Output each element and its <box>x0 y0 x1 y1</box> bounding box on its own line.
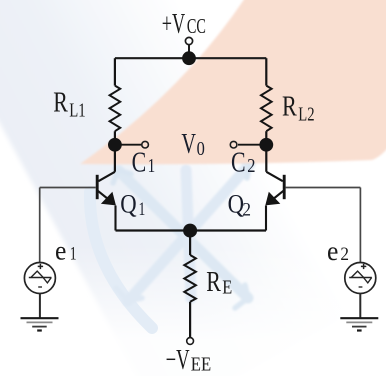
wire RE upper <box>189 231 191 255</box>
wire e1 to ground <box>39 294 41 319</box>
transistor Q1 <box>97 172 115 199</box>
svg-text:R: R <box>282 91 297 122</box>
svg-text:2: 2 <box>247 155 255 177</box>
resistor RL2 <box>261 86 272 132</box>
label e2 <box>327 236 349 266</box>
wire Q1 emitter drop <box>114 206 116 231</box>
label Q2 <box>228 190 251 221</box>
wire Q1 base lead <box>40 187 96 189</box>
node C1 terminal <box>142 141 149 148</box>
svg-text:C: C <box>231 148 246 179</box>
wire C1 stub <box>115 144 142 146</box>
svg-text:−V: −V <box>166 344 190 376</box>
svg-text:CC: CC <box>187 14 206 38</box>
svg-text:R: R <box>53 87 68 118</box>
svg-text:C: C <box>132 148 147 179</box>
svg-text:V: V <box>181 129 196 160</box>
junction VCC dot <box>182 51 196 65</box>
label Q1 <box>120 190 145 221</box>
label -VEE <box>166 344 212 376</box>
svg-text:Q: Q <box>120 190 137 219</box>
wire left branch mid <box>114 131 116 172</box>
junction C2 dot <box>259 138 273 152</box>
junction emitter dot <box>183 224 197 238</box>
svg-text:e: e <box>55 236 66 266</box>
wire e2 to ground <box>359 294 361 319</box>
node +VCC terminal <box>185 37 192 44</box>
label RL2 <box>282 91 315 125</box>
label V0 <box>181 129 204 160</box>
peach watermark polygon <box>80 0 386 164</box>
wire e1 riser <box>39 188 41 263</box>
wire Q2 base lead <box>286 187 361 189</box>
wire RE lower <box>189 302 191 338</box>
wire right branch upper <box>265 58 267 85</box>
label RE <box>206 267 232 299</box>
svg-text:E: E <box>222 277 232 299</box>
watermark blue arc <box>90 192 152 328</box>
wire bottom emitter bus <box>116 229 267 231</box>
node -VEE terminal <box>187 338 194 345</box>
resistor RL1 <box>110 86 121 132</box>
wire Q2 emitter drop <box>265 206 267 231</box>
label RL1 <box>53 87 85 121</box>
junction C1 dot <box>108 138 122 152</box>
svg-text:EE: EE <box>191 354 211 376</box>
wire C2 stub <box>238 144 266 146</box>
Q1 emitter arrow <box>101 192 116 206</box>
svg-text:0: 0 <box>197 138 205 160</box>
svg-text:1: 1 <box>148 155 156 177</box>
svg-text:2: 2 <box>340 244 349 265</box>
watermark snowflake <box>113 158 250 308</box>
wire vcc stub <box>188 45 190 59</box>
svg-text:+V: +V <box>162 8 185 40</box>
source e1 <box>24 263 55 294</box>
wire e2 riser <box>359 188 361 263</box>
resistor RE <box>184 255 196 302</box>
svg-text:2: 2 <box>242 200 251 221</box>
wire left branch upper <box>114 58 116 85</box>
label C1 <box>132 148 156 179</box>
transistor Q2 <box>266 172 284 199</box>
ground e2 <box>340 318 378 330</box>
label +VCC <box>162 8 206 40</box>
svg-text:L1: L1 <box>69 99 85 121</box>
svg-text:e: e <box>327 236 338 266</box>
svg-text:L2: L2 <box>298 103 314 125</box>
source e2 <box>345 263 376 294</box>
Q2 emitter arrow <box>265 192 280 206</box>
node C2 terminal <box>230 141 237 148</box>
wire right branch mid <box>265 131 267 172</box>
background bottom fade <box>0 245 386 376</box>
wire top bus <box>115 57 266 59</box>
label C2 <box>231 148 256 179</box>
svg-text:1: 1 <box>139 199 146 220</box>
svg-text:1: 1 <box>70 244 77 265</box>
label e1 <box>55 236 77 266</box>
svg-text:R: R <box>206 267 221 298</box>
ground e1 <box>21 318 59 330</box>
